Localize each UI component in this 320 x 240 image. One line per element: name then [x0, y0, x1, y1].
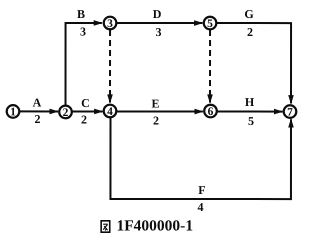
svg-text:6: 6	[208, 106, 214, 118]
svg-text:D: D	[153, 7, 162, 21]
svg-text:A: A	[33, 95, 42, 109]
wire A: node1 to node2	[19, 109, 59, 115]
svg-text:5: 5	[207, 18, 213, 30]
label F/4	[197, 183, 205, 214]
svg-text:7: 7	[287, 107, 293, 119]
svg-text:E: E	[151, 96, 159, 110]
wire F: node4 down, right, up to node7	[110, 117, 293, 199]
node 4	[104, 105, 117, 118]
dummy arrow node5 to node6 (dashed)	[207, 30, 213, 104]
wire B: node2 up and right to node3	[66, 20, 103, 106]
wire D: node3 to node5	[117, 20, 203, 26]
node 3	[104, 17, 117, 30]
node 5	[204, 17, 217, 30]
svg-text:F: F	[198, 183, 205, 197]
svg-text:2: 2	[81, 112, 87, 126]
svg-text:5: 5	[248, 114, 254, 128]
node 6	[204, 105, 217, 118]
dummy arrow node3 to node4 (dashed)	[107, 30, 113, 104]
wire E: node4 to node6	[117, 109, 204, 115]
label G/2	[244, 7, 253, 39]
svg-text:3: 3	[107, 18, 113, 30]
svg-text:2: 2	[34, 112, 40, 126]
node 1	[7, 105, 20, 118]
svg-text:2: 2	[63, 107, 69, 119]
label H/5	[245, 95, 255, 128]
label E/2	[151, 96, 159, 127]
caption glyph 图	[101, 221, 110, 232]
svg-text:1F400000-1: 1F400000-1	[116, 217, 193, 234]
svg-text:2: 2	[247, 25, 253, 39]
svg-text:3: 3	[156, 25, 162, 39]
wire H: node6 to node7	[217, 109, 283, 115]
svg-text:3: 3	[80, 24, 86, 38]
svg-text:G: G	[244, 7, 253, 21]
label B/3	[77, 7, 86, 39]
svg-text:4: 4	[107, 106, 113, 118]
node 2	[59, 106, 72, 119]
svg-text:B: B	[77, 7, 85, 21]
label A/2	[33, 95, 42, 126]
svg-text:1: 1	[10, 106, 16, 118]
svg-text:2: 2	[153, 114, 159, 128]
wire G: node5 right then down to node7	[217, 23, 294, 104]
wire C: node2 to node4	[72, 109, 103, 115]
label C/2	[81, 96, 90, 127]
svg-text:H: H	[245, 95, 255, 109]
svg-text:C: C	[81, 96, 90, 110]
node 7	[284, 105, 297, 118]
svg-text:4: 4	[197, 200, 203, 214]
label D/3	[153, 7, 162, 39]
